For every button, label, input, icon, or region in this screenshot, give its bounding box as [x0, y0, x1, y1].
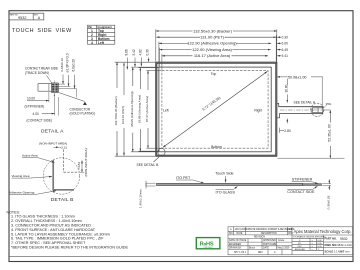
ext line active left [161, 54, 163, 70]
svg-text:0.30: 0.30 [146, 49, 150, 55]
svg-text:ENGINEER: ENGINEER [229, 244, 241, 246]
adhesive opening outline [159, 67, 271, 152]
title block texts [229, 228, 295, 254]
svg-text:Touch Side: Touch Side [215, 172, 233, 176]
svg-text:5. LAYER TO LAYER ASSEMBLY TOL: 5. LAYER TO LAYER ASSEMBLY TOLERANCE: ±0… [11, 232, 110, 236]
ext line adhesive top left [131, 66, 158, 68]
tail end cap [322, 107, 324, 114]
svg-text:PART NO.: PART NO. [325, 237, 337, 241]
svg-text:SEE DETAIL A: SEE DETAIL A [294, 100, 316, 104]
svg-text:COMPLIANT: COMPLIANT [203, 246, 213, 249]
conductor marker triangle [83, 102, 87, 105]
detail A ext lines right [59, 83, 65, 85]
svg-text:Grace: Grace [278, 239, 285, 242]
detail A connector body [51, 83, 58, 92]
svg-text:CONTACT SIDE: CONTACT SIDE [287, 190, 315, 194]
dim 3.84 vertical [81, 161, 83, 173]
svg-text:Top: Top [211, 72, 217, 76]
svg-text:DRAWN BY: DRAWN BY [229, 247, 242, 250]
svg-text:0.30: 0.30 [282, 36, 289, 40]
part no strip text [10, 13, 41, 20]
ext line adhesive bottom left [131, 151, 158, 153]
detail A tail left end [37, 84, 39, 92]
svg-text:104.10 (PET): 104.10 (PET) [121, 106, 125, 124]
svg-text:4.00: 4.00 [33, 112, 39, 116]
ext line backer right [276, 29, 278, 61]
svg-text:SCALE 1:1 UNIT mm: SCALE 1:1 UNIT mm [325, 249, 350, 253]
svg-text:6. TAIL TYPE : IMMERSION GOLD: 6. TAIL TYPE : IMMERSION GOLD PLATED FPC… [11, 237, 104, 241]
dim 1.40 thickness [146, 182, 156, 184]
tail contact head divider [317, 108, 319, 113]
svg-text:(GOLD PLATING): (GOLD PLATING) [70, 112, 95, 116]
dim 132.50 backer [156, 30, 277, 32]
inner bottom frame line [9, 255, 353, 257]
svg-text:7. OTHER SPEC : SEE APPROVAL S: 7. OTHER SPEC : SEE APPROVAL SHEET [11, 241, 86, 245]
svg-text:0.30±0.05: 0.30±0.05 [326, 195, 330, 209]
svg-text:DATE OF ISSUE: DATE OF ISSUE [229, 239, 247, 242]
right offset leader 6.49 [277, 49, 281, 51]
active area dashed corner horizontal [64, 171, 80, 173]
ext line active bottom left [146, 147, 161, 149]
svg-text:ITO GLASS: ITO GLASS [216, 190, 236, 194]
dim 50.08 line [277, 76, 323, 78]
dim 116.17 active [162, 55, 268, 57]
svg-text:8.66: 8.66 [124, 49, 128, 55]
detail A dim 4.00 [54, 93, 56, 116]
right offset leader 0.30 [277, 36, 281, 38]
svg-text:ø1.0P×3=3.0: ø1.0P×3=3.0 [66, 53, 70, 72]
tail top edge [279, 106, 323, 108]
dim 122.90 adhesive [159, 42, 271, 44]
svg-text:4: 4 [91, 41, 93, 45]
detail A tail top edge [38, 83, 51, 85]
svg-text:SHT 1 OF 1: SHT 1 OF 1 [234, 252, 247, 254]
active area dashed corner vertical [63, 150, 65, 173]
svg-text:Active Area: Active Area [22, 154, 38, 158]
dim 87.37 active vertical [147, 71, 149, 149]
dim 104.10 PET vertical [123, 63, 125, 156]
pin assignment table [88, 25, 115, 44]
ext line viewing bottom left [139, 150, 159, 152]
svg-text:9.41: 9.41 [282, 54, 289, 58]
stiffener segment [303, 184, 322, 186]
dim 95.05 adhesive vertical [132, 67, 134, 152]
ext line backer left [155, 29, 157, 61]
ext line viewing left [158, 48, 160, 67]
tolerance table texts [293, 236, 326, 251]
svg-text:0.65±0.10: 0.65±0.10 [60, 58, 64, 72]
ext line panel bottom right [278, 157, 345, 159]
svg-text:6.49: 6.49 [282, 48, 289, 52]
svg-text:Left: Left [98, 41, 105, 45]
svg-text:NOTES:: NOTES: [7, 210, 20, 214]
svg-text:Bottom: Bottom [211, 145, 222, 149]
PET outline [157, 63, 276, 155]
svg-text:4. FRONT SURFACE : ANTI-GLARE: 4. FRONT SURFACE : ANTI-GLARE HARDCOAT [11, 228, 96, 232]
svg-text:ALE: ALE [288, 228, 293, 231]
touch side arrow [225, 176, 227, 182]
svg-text:TOUCH SIDE VIEW: TOUCH SIDE VIEW [12, 28, 72, 34]
svg-text:52.35±1.00: 52.35±1.00 [328, 124, 332, 142]
svg-text:(TRACE DOWN): (TRACE DOWN) [25, 71, 49, 75]
svg-text:10.00: 10.00 [27, 97, 35, 101]
svg-text:CONDUCTOR: CONDUCTOR [70, 107, 91, 111]
svg-text:=3.31: =3.31 [59, 146, 67, 150]
svg-text:50.08±1.00: 50.08±1.00 [288, 75, 306, 79]
part info texts [325, 237, 353, 254]
svg-text:TOLERANCE UNLESS SPECIFIED: TOLERANCE UNLESS SPECIFIED [293, 236, 326, 239]
svg-text:16.80: 16.80 [284, 84, 288, 92]
svg-text:XXX: XXX [298, 246, 303, 248]
svg-text:9532: 9532 [18, 16, 26, 20]
svg-text:CHK: CHK [288, 233, 293, 235]
detail A indicator circle [311, 103, 324, 116]
svg-text:3. CONNECTOR AND PINOUT AS IND: 3. CONNECTOR AND PINOUT AS INDICATED [11, 224, 91, 228]
svg-text:(NON-INPUT AREA): (NON-INPUT AREA) [84, 148, 88, 176]
detail A dim 10.00 [48, 92, 50, 102]
svg-text:6.00: 6.00 [282, 42, 289, 46]
svg-text:6.0±0.20: 6.0±0.20 [72, 59, 76, 72]
ext line PET right [275, 35, 277, 61]
svg-text:9532: 9532 [340, 237, 348, 241]
svg-text:PIN1: PIN1 [326, 103, 332, 106]
svg-text:Bruce: Bruce [249, 247, 256, 250]
detail A stiffener boundary [48, 84, 50, 92]
ext line backer bottom [115, 155, 155, 157]
dim 52.35 vertical [329, 110, 331, 158]
tail centerline [280, 109, 322, 111]
svg-text:Viewing Area: Viewing Area [12, 174, 30, 178]
svg-text:*BEFORE DESIGN PLEASE REFER TO: *BEFORE DESIGN PLEASE REFER TO THE INTEG… [11, 246, 128, 250]
svg-text:DWG NO:9532-1-013: DWG NO:9532-1-013 [325, 243, 353, 247]
svg-text:4.82: 4.82 [138, 49, 142, 55]
svg-text:122.90 (Adhesive Opening): 122.90 (Adhesive Opening) [187, 41, 237, 46]
link line tail end to 52.35 dim [323, 109, 330, 111]
dim 2.80 [286, 119, 288, 124]
dim 0.30 stiffener thickness [322, 183, 331, 185]
svg-text:95.05 (Adhesive Opening): 95.05 (Adhesive Opening) [130, 91, 134, 126]
svg-text:=3.84: =3.84 [77, 162, 81, 170]
svg-text:104.70±0.30 (Backer): 104.70±0.30 (Backer) [114, 96, 118, 125]
right offset leader 9.41 [277, 55, 281, 57]
svg-text:2. OVERALL THICKNESS : 1.40±0.: 2. OVERALL THICKNESS : 1.40±0.10mm [11, 219, 82, 223]
svg-text:DATE: DATE [263, 247, 269, 250]
pin table text [88, 26, 112, 45]
dim 122.00 viewing [159, 49, 270, 51]
svg-text:SEE DETAIL B: SEE DETAIL B [137, 163, 160, 167]
dim 93.88 viewing vertical [139, 68, 141, 152]
svg-text:APPROVED: APPROVED [263, 239, 276, 242]
tail contact head [312, 108, 322, 113]
tail bottom edge [280, 112, 323, 114]
adhesive corner thick horizontal [52, 189, 74, 191]
svg-text:DESCRIPTION: DESCRIPTION [261, 233, 277, 235]
conductor leader [59, 93, 85, 102]
svg-text:DETAIL A: DETAIL A [41, 129, 64, 135]
svg-text:DATE: DATE [237, 232, 243, 235]
viewing corner thick vertical [52, 160, 54, 190]
svg-text:REV: REV [258, 252, 263, 254]
part no strip box [9, 13, 44, 20]
ext line backer top [115, 61, 155, 63]
svg-text:May.5.2009: May.5.2009 [278, 248, 291, 250]
diagonal dimension line [163, 71, 267, 147]
dim 3.31 [54, 146, 59, 148]
svg-text:1°: 1° [318, 249, 320, 251]
svg-text:122.00 (Viewing Area): 122.00 (Viewing Area) [192, 47, 232, 52]
detail B indicator circle [158, 148, 165, 155]
svg-text:STIFFENER: STIFFENER [292, 177, 313, 181]
svg-text:Right: Right [254, 109, 262, 113]
ext line active top left [146, 70, 161, 72]
ext line viewing top left [139, 67, 159, 69]
ext line adhesive left [158, 42, 160, 67]
svg-text:PART NAME: PART NAME [263, 243, 277, 246]
svg-text:132.50±0.30 (Backer): 132.50±0.30 (Backer) [193, 28, 233, 33]
svg-text:131.90 (PET): 131.90 (PET) [200, 35, 225, 40]
detail A tail bottom edge [38, 90, 51, 92]
svg-text:Adhesive Opening: Adhesive Opening [9, 191, 35, 195]
backer outline [156, 62, 277, 156]
svg-text:5.42: 5.42 [132, 49, 136, 55]
glass bar [157, 183, 303, 185]
svg-text:(STIFFENER): (STIFFENER) [25, 104, 45, 108]
svg-text:1. ITO GLASS THICKNESS : 1.10m: 1. ITO GLASS THICKNESS : 1.10mm [11, 215, 75, 219]
svg-text:ANGULAR: ANGULAR [295, 248, 305, 251]
tail contact head tick [310, 109, 312, 112]
ext line tail end up [321, 77, 323, 108]
svg-text:93.88 (Viewing Area): 93.88 (Viewing Area) [137, 95, 141, 123]
detail A connector contacts [52, 84, 58, 92]
svg-text:ITO PET: ITO PET [176, 176, 191, 180]
contact rear side leader [47, 76, 53, 84]
svg-text:DETAIL B: DETAIL B [51, 197, 74, 203]
PIN1 leader [323, 105, 326, 108]
detail B circle [43, 158, 79, 194]
tail root top step [277, 103, 279, 106]
detail B leader [154, 157, 160, 162]
svg-text:(CONTACT SIDE): (CONTACT SIDE) [27, 118, 53, 122]
svg-text:116.17 (Active Area): 116.17 (Active Area) [194, 53, 231, 58]
svg-text:REVISION: REVISION [254, 237, 265, 239]
svg-text:87.37 (Active Area): 87.37 (Active Area) [145, 96, 149, 122]
svg-text:2.80: 2.80 [284, 129, 291, 133]
svg-text:Left: Left [163, 109, 169, 113]
svg-text:Apex Material Technology Corp.: Apex Material Technology Corp. [294, 229, 352, 234]
svg-text:1.40±0.10mm: 1.40±0.10mm [139, 189, 143, 208]
dim 131.90 PET [156, 36, 276, 38]
tail root bottom step [277, 113, 280, 117]
active area dashed outline [162, 71, 268, 149]
svg-text:NO.: NO. [229, 233, 233, 235]
right offset leader 6.00 [277, 42, 281, 44]
dim 104.70 backer vertical [116, 62, 118, 156]
